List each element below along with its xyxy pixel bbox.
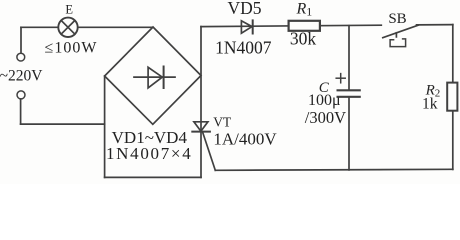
- svg-text:1k: 1k: [422, 95, 438, 112]
- svg-text:≤100W: ≤100W: [45, 40, 98, 57]
- svg-text:VD5: VD5: [227, 0, 261, 18]
- svg-text:/300V: /300V: [305, 108, 346, 127]
- svg-text:VT: VT: [213, 115, 232, 130]
- svg-text:30k: 30k: [290, 29, 317, 49]
- svg-text:100μ: 100μ: [308, 92, 341, 109]
- svg-text:1A/400V: 1A/400V: [213, 130, 277, 149]
- svg-text:SB: SB: [388, 11, 406, 27]
- svg-text:~220V: ~220V: [0, 68, 43, 85]
- svg-text:1N4007×4: 1N4007×4: [106, 144, 192, 163]
- svg-text:E: E: [65, 2, 73, 16]
- svg-text:1N4007: 1N4007: [215, 38, 272, 58]
